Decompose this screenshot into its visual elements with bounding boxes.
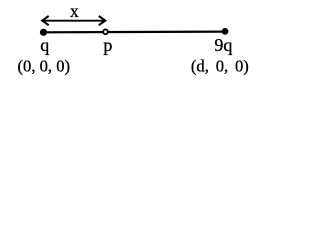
svg-text:p: p — [103, 35, 112, 55]
svg-text:(0, 0, 0): (0, 0, 0) — [18, 57, 71, 76]
arrowhead right — [99, 16, 106, 25]
node 9q filled dot — [222, 28, 229, 35]
wire main horizontal line q to 9q — [44, 31, 226, 34]
dimension arrow shaft — [43, 20, 104, 22]
svg-text:q: q — [40, 35, 49, 55]
svg-text:x: x — [70, 1, 79, 21]
node p open circle — [103, 29, 108, 34]
svg-text:9q: 9q — [214, 35, 232, 55]
node q filled dot — [40, 29, 47, 36]
arrowhead left — [42, 16, 49, 25]
svg-text:(d, 0, 0): (d, 0, 0) — [191, 57, 249, 76]
